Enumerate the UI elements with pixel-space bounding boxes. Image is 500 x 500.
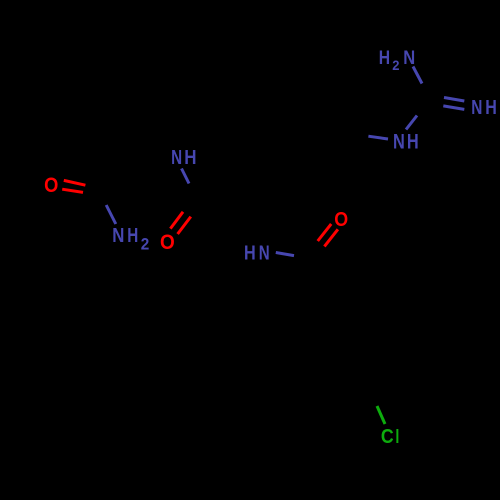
svg-text:O: O [160,231,175,254]
wire: double bond C=O upper line (red half, left amide) [64,180,86,185]
svg-text:N: N [171,146,182,168]
svg-text:H: H [407,129,419,152]
svg-text:N: N [403,47,415,69]
svg-text:l: l [395,426,399,448]
wire: double bond C=O left line (red half, benzamide) [318,224,332,241]
svg-text:C: C [381,426,394,448]
svg-text:O: O [334,209,348,231]
wire: bond amide C to NH2 (blue half) [106,205,116,224]
wire: double bond C=O left line (red half, middle amide) [170,212,183,229]
svg-text:2: 2 [141,236,150,254]
svg-text:N: N [259,241,270,264]
atom label Cl (chlorine) [381,426,399,448]
svg-text:N: N [112,223,124,246]
wire: double bond C=NH lower line (blue half) [443,106,464,110]
svg-text:H: H [127,224,138,247]
atom label NH (backbone amide NH) [171,146,196,169]
atom label NH (imine =NH) [471,95,497,119]
atom label H2N (guanidine amine) [379,46,415,73]
atom label NH2 (primary amide) [112,223,149,253]
wire: bond NH to side-chain CH2 (blue half) [368,136,388,139]
svg-text:2: 2 [392,58,399,73]
wire: double bond C=NH upper line (blue half) [444,98,464,102]
wire: double bond C=O right line (red half, benzamide) [324,229,338,246]
wire: double bond C=O right line (red half, middle amide) [178,217,191,234]
svg-text:H: H [485,95,497,118]
wire: bond guanidine C to NH (blue half) [406,116,417,130]
svg-text:H: H [244,240,256,263]
wire: bond H2N to guanidine C (blue half) [413,67,422,84]
svg-text:H: H [379,46,390,68]
svg-text:O: O [44,174,58,197]
svg-text:N: N [471,95,482,119]
wire: bond HN to benzoyl C (blue half) [276,253,294,256]
wire: double bond C=O lower line (red half, left amide) [62,189,83,192]
wire: bond ring C to Cl (green half) [377,406,385,424]
atom label NH (guanidine NH) [393,129,419,152]
svg-text:H: H [184,146,196,169]
atom label HN (benzamide NH) [244,240,270,263]
wire: bond NH to amide C (blue half) [182,169,190,184]
svg-text:N: N [393,129,405,152]
